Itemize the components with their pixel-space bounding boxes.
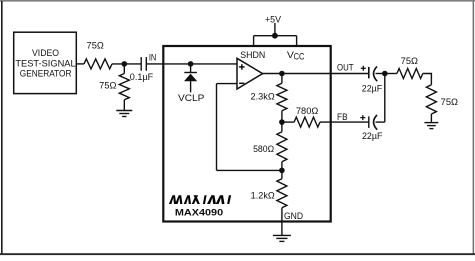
wire (282, 121, 294, 123)
svg-text:75Ω: 75Ω (401, 56, 418, 67)
wire (123, 100, 125, 111)
wire (281, 208, 283, 236)
resistor 580Ω (253, 132, 287, 162)
svg-text:VIDEO: VIDEO (32, 48, 59, 59)
resistor 780Ω (294, 106, 320, 127)
svg-text:SHDN: SHDN (240, 50, 265, 61)
svg-text:2.3kΩ: 2.3kΩ (251, 92, 275, 103)
ground (424, 123, 438, 129)
node (VCLP tap) (188, 61, 194, 67)
MAXIM logo (169, 195, 231, 204)
svg-text:22µF: 22µF (362, 131, 383, 142)
video test-signal generator (14, 32, 77, 93)
svg-text:780Ω: 780Ω (296, 106, 318, 117)
resistor 2.3kΩ (251, 83, 287, 111)
svg-text:FB: FB (337, 112, 348, 123)
wire (430, 114, 432, 123)
resistor 75Ω (load) (426, 85, 458, 114)
resistor 75Ω (input termination) (99, 74, 129, 100)
wire (320, 121, 369, 123)
node (input junction) (122, 61, 128, 67)
svg-text:IN: IN (149, 53, 157, 64)
wire (190, 64, 192, 73)
node (supply junction) (272, 33, 278, 39)
svg-text:CC: CC (294, 52, 305, 63)
svg-text:75Ω: 75Ω (99, 81, 116, 92)
wire (217, 169, 282, 171)
resistor 75Ω (back termination) (397, 56, 423, 79)
wire (216, 84, 218, 171)
wire (281, 122, 283, 132)
capacitor 22µF (output coupling) (361, 66, 385, 95)
wire (423, 74, 432, 85)
svg-text:GENERATOR: GENERATOR (20, 69, 72, 80)
svg-text:1.2kΩ: 1.2kΩ (251, 191, 275, 202)
svg-text:+5V: +5V (265, 15, 282, 26)
diode (VCLP clamp) (184, 73, 197, 93)
pin VCC (287, 50, 305, 62)
ground (116, 111, 132, 117)
wire (281, 74, 283, 84)
node (output load junction) (382, 71, 388, 77)
wire (263, 73, 369, 75)
wire (296, 36, 298, 46)
node (divider mid / inverting input) (279, 168, 285, 174)
resistor 75Ω (series source) (84, 41, 112, 69)
svg-text:GND: GND (284, 211, 303, 222)
wire (281, 162, 283, 171)
capacitor 0.1µF (130, 57, 154, 83)
resistor 1.2kΩ (251, 179, 287, 208)
ground (273, 235, 291, 241)
svg-text:75Ω: 75Ω (441, 97, 458, 108)
wire (253, 36, 255, 46)
node (feedback divider top) (279, 119, 285, 125)
node (op-amp output) (279, 71, 285, 77)
capacitor 22µF (feedback coupling) (360, 115, 385, 142)
svg-text:75Ω: 75Ω (87, 41, 104, 52)
svg-text:MAX4090: MAX4090 (175, 207, 223, 218)
wire (281, 111, 283, 122)
wire (254, 35, 297, 37)
wire (123, 64, 125, 74)
wire (385, 73, 397, 75)
svg-text:0.1µF: 0.1µF (130, 72, 154, 83)
wire (384, 74, 386, 123)
wire (146, 63, 237, 65)
svg-text:22µF: 22µF (362, 84, 383, 95)
wire (217, 83, 238, 85)
wire (281, 170, 283, 178)
op-amp (video amplifier) (237, 58, 263, 89)
svg-text:VCLP: VCLP (178, 93, 204, 104)
svg-text:OUT: OUT (337, 62, 354, 73)
op-amp IC MAX4090 outline (163, 46, 330, 222)
wire (112, 63, 141, 65)
svg-text:580Ω: 580Ω (253, 144, 274, 155)
wire (274, 23, 276, 36)
wire (76, 63, 84, 65)
